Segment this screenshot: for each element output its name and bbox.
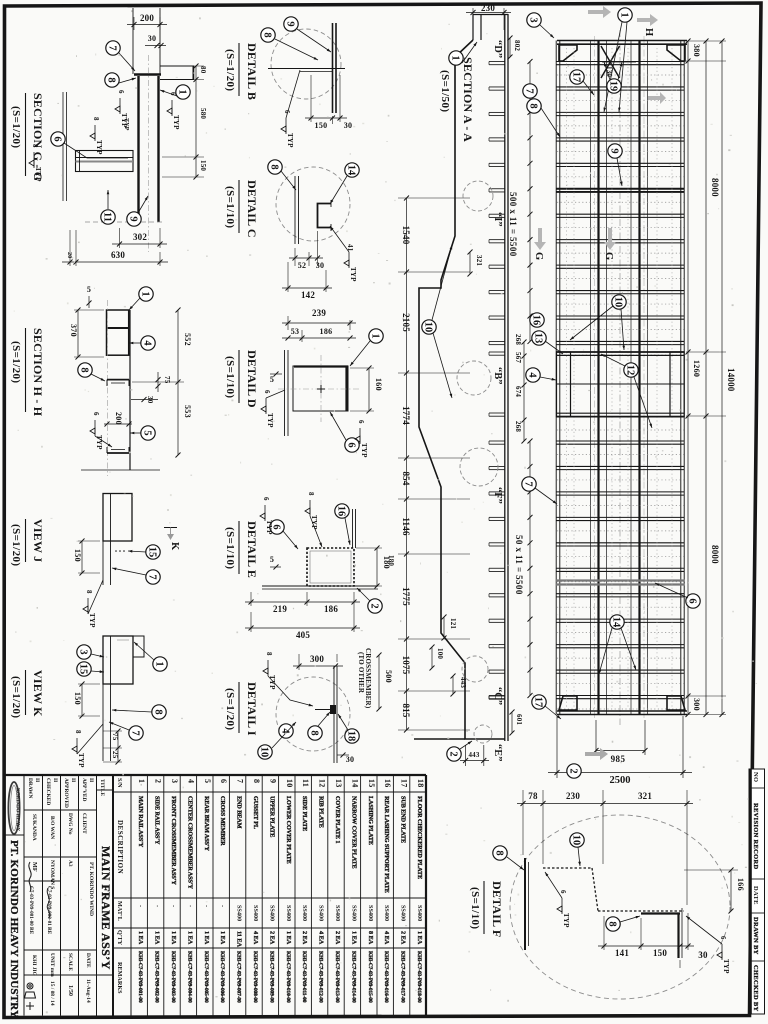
svg-text:KORINDO HEAVY: KORINDO HEAVY [15,788,20,831]
svg-text:18: 18 [416,779,425,788]
svg-text:UNIT mm: UNIT mm [49,953,55,977]
region circle &#8220;B&#8221; [457,361,491,395]
svg-text:100: 100 [436,648,444,659]
svg-text:52: 52 [298,261,307,270]
svg-text:4 EA: 4 EA [252,931,259,945]
svg-text:SS400: SS400 [400,905,407,921]
svg-text:1 EA: 1 EA [154,931,161,945]
svg-text:8: 8 [607,921,618,926]
svg-text:(S=1/20): (S=1/20) [10,341,22,383]
H-H channel stub upper [107,379,129,381]
svg-text:41: 41 [346,244,354,252]
detail F lower member (thick) [641,908,682,958]
svg-text:150: 150 [199,160,207,171]
svg-text:6: 6 [559,890,567,894]
svg-text:DATE: DATE [85,953,91,968]
svg-text:239: 239 [312,308,326,318]
svg-text:17: 17 [400,779,409,788]
svg-text:(S=1/10): (S=1/10) [224,356,236,398]
balloon 17 [570,70,584,84]
dim 985 (bottom) [594,720,648,764]
svg-text:230: 230 [566,791,580,801]
detail D dim 160 [350,366,383,414]
svg-text:II: II [88,778,94,782]
balloon 12 [624,363,638,377]
svg-text:11: 11 [102,212,113,222]
svg-text:150: 150 [73,692,82,705]
section H-H figure [81,300,160,476]
svg-text:443: 443 [459,677,467,688]
region circle &#8220;I&#8221; [463,181,493,211]
svg-text:(TO OTHER: (TO OTHER [357,652,365,694]
svg-text:1 EA: 1 EA [186,931,193,945]
detail D figure [278,350,360,436]
leader balloon 1 A-A [462,42,477,63]
weld symbol left of G-G [29,144,42,182]
svg-text:“B”: “B” [492,367,503,385]
leader from balloons 7/8 [541,108,560,137]
svg-text:121: 121 [449,618,457,629]
svg-text:SS400: SS400 [268,905,275,921]
svg-text:30: 30 [148,34,157,43]
svg-text:1 EA: 1 EA [219,931,226,945]
leader balloon 8 K [112,710,152,712]
svg-text:DWG No: DWG No [67,813,73,835]
svg-text:MAIN RAIL ASS'Y: MAIN RAIL ASS'Y [137,796,144,848]
balloon 8 detail B [261,28,275,42]
section cut H mid mark [648,92,666,104]
BOM row 18 [416,779,425,1003]
svg-text:TITLE: TITLE [99,779,105,796]
bolster right pad [670,352,684,417]
svg-text:150: 150 [653,948,667,958]
balloon 10 [612,295,626,309]
balloon 7 view J [146,570,160,584]
balloon 1 view K [153,657,167,671]
svg-text:10: 10 [571,835,582,846]
svg-text:180: 180 [382,556,391,569]
svg-text:KHI-C7-03-P09-001-00: KHI-C7-03-P09-001-00 [137,951,143,1003]
weld leader K [77,724,103,754]
leaders from balloon 14 [599,628,612,674]
balloon 11 G-G [101,210,115,224]
svg-text:19: 19 [608,81,619,92]
main rail 2 web [638,41,640,715]
svg-text:10: 10 [613,297,624,308]
balloon 8 view K [152,705,166,719]
svg-text:8000: 8000 [710,178,720,197]
svg-text:16: 16 [336,506,347,517]
svg-text:552: 552 [183,333,192,346]
svg-text:985: 985 [611,754,626,764]
svg-text:H: H [643,28,654,36]
svg-text:DATE: DATE [752,886,759,905]
svg-text:KHI-C7-03-P09-009-00: KHI-C7-03-P09-009-00 [268,951,274,1003]
svg-text:1: 1 [137,779,146,783]
balloon 14 detail C [345,163,359,177]
svg-text:1 EA: 1 EA [350,931,357,945]
svg-text:(S=1/20): (S=1/20) [10,106,22,148]
svg-text:8: 8 [265,652,273,656]
svg-text:8: 8 [528,103,539,108]
svg-text:REVISION RECORD: REVISION RECORD [752,803,759,869]
dim 601 [510,710,524,736]
svg-text:2105: 2105 [401,313,411,332]
G-G dim 630 + 20 [62,230,168,266]
svg-text:443: 443 [468,751,479,759]
svg-text:REMARKS: REMARKS [116,962,123,994]
BOM row 8 [252,779,261,1003]
svg-text:4: 4 [527,372,538,378]
svg-text:75: 75 [111,733,119,741]
BOM row 3 [170,779,179,1003]
detail C title [224,180,259,238]
svg-text:580: 580 [199,108,207,119]
svg-text:2 EA: 2 EA [268,931,275,945]
svg-text:KHI-C7-03-P09-010-00: KHI-C7-03-P09-010-00 [285,951,291,1003]
balloon 8 [527,99,541,113]
svg-text:268: 268 [514,334,522,345]
svg-text:6: 6 [357,420,365,424]
detail D box [293,366,348,411]
svg-text:REAR BEAM ASS'Y: REAR BEAM ASS'Y [203,796,210,852]
weld leader J [88,580,103,614]
bottom end crossmember [557,710,687,712]
signature squiggles [29,862,31,892]
deck edge rails [555,41,557,715]
section cut G right (gray) [604,228,616,250]
svg-text:DETAIL B: DETAIL B [245,43,259,100]
leaders from balloon 12 [601,354,625,366]
balloon 7 view K [129,726,143,740]
leader balloon 18 I [338,714,348,730]
svg-text:500: 500 [384,670,393,683]
detail B title [224,43,259,100]
G-G datum line [85,221,165,223]
svg-text:8: 8 [85,590,93,594]
G-G dim 302 [112,228,167,248]
BOM row 12 [318,779,327,1003]
svg-text:14: 14 [611,617,622,628]
balloon 6 detail E [270,520,284,534]
view K figure [103,636,144,761]
svg-text:12: 12 [318,779,327,788]
G-G cross channel [76,151,134,172]
balloon 4 H-H [141,336,155,350]
svg-text:16: 16 [383,779,392,788]
leader balloon 8 G-G [119,78,136,83]
crossmembers (double lines) [556,61,685,63]
svg-text:-: - [219,905,226,907]
leader balloon 8 B [275,39,318,60]
right dim line: 14000 overall [720,39,737,718]
balloon 3 [527,13,541,27]
G-G dim 200 [127,13,167,30]
svg-text:A3: A3 [67,860,73,867]
BOM row 9 [268,779,277,1003]
balloon 18 detail I [345,729,359,743]
svg-text:-: - [137,905,144,907]
svg-text:END BEAM: END BEAM [236,796,243,829]
leader balloon 10 I [272,722,296,748]
detail D dim 5 [270,372,282,385]
svg-text:CHECKED BY: CHECKED BY [752,965,759,1012]
main frame plan view [556,30,687,725]
detail F dims 141/150/30 [598,913,708,968]
G-G webs (thick verticals) [137,76,139,222]
svg-text:-: - [170,905,177,907]
svg-text:1: 1 [450,55,461,60]
svg-text:4: 4 [142,340,153,346]
svg-text:8: 8 [494,850,505,855]
svg-text:PT. KORINDO HEAVY INDUSTRY: PT. KORINDO HEAVY INDUSTRY [8,840,20,1018]
svg-text:NO: NO [752,772,759,782]
svg-text:674: 674 [514,386,522,397]
svg-text:50 x 11 = 5500: 50 x 11 = 5500 [514,535,524,595]
title block grid [6,775,114,1016]
weld symbol J [83,590,96,628]
leader balloon 9 B [297,29,331,52]
H-H dim 370 [69,308,104,360]
view J figure [103,494,132,586]
svg-text:TYP: TYP [286,133,294,148]
balloon 9 [608,144,622,158]
balloon 2 detail E [368,599,382,613]
svg-text:2: 2 [369,603,380,608]
svg-text:6: 6 [169,92,177,96]
detail F dims 78/230/321 [517,790,693,905]
svg-text:MAT'L: MAT'L [116,901,123,921]
detail F dashed step profile [543,868,684,911]
svg-text:2: 2 [568,768,579,773]
svg-text:321: 321 [638,791,652,801]
svg-text:500 x 11 = 5500: 500 x 11 = 5500 [508,192,518,257]
svg-text:8: 8 [92,117,100,121]
balloon 8 detail C [268,160,282,174]
svg-text:DETAIL D: DETAIL D [245,350,259,408]
svg-text:14000: 14000 [726,368,736,392]
bolster mid line [556,383,685,385]
svg-text:141: 141 [615,948,629,958]
G-G right dims 80/580/150 [162,64,207,180]
svg-text:CLIENT: CLIENT [81,813,87,834]
svg-text:KHI-C7-03-P09-008-00: KHI-C7-03-P09-008-00 [252,951,258,1003]
detail I dim 300 [293,654,343,670]
svg-text:2 EA: 2 EA [334,931,341,945]
svg-text:TYP: TYP [34,167,42,182]
balloon 6 detail D [345,438,359,452]
svg-text:CROSSMEMBER): CROSSMEMBER) [364,648,372,709]
svg-text:1774: 1774 [401,406,411,425]
view K title [10,670,45,718]
svg-text:TYP: TYP [265,520,273,535]
BOM row 2 [154,779,163,1003]
svg-text:302: 302 [133,232,147,242]
leader balloon 8 F [507,857,524,870]
detail C member [295,176,331,244]
region circle &#8220;F&#8221; [460,448,498,486]
balloon 2 on section A-A [447,747,461,761]
svg-text:8: 8 [309,730,320,735]
svg-text:RIB PLATE: RIB PLATE [318,796,325,828]
svg-text:6: 6 [346,442,357,447]
svg-text:B/O WAN: B/O WAN [49,816,55,839]
H-H ground line [81,469,160,471]
svg-text:TYP: TYP [88,613,96,628]
svg-text:DETAIL C: DETAIL C [245,180,259,238]
svg-text:5: 5 [142,430,153,435]
svg-text:16: 16 [531,315,542,326]
detail E dims 219/186 [245,592,360,632]
svg-text:TYP: TYP [95,140,103,155]
leader from balloon 17 [583,81,594,95]
region circle &#8220;E&#8221; [474,725,492,743]
leader balloon 6 G-G [64,143,128,158]
section A-A title [439,57,475,142]
svg-text:8000: 8000 [710,545,720,564]
svg-text:KHI-C7-03-P09-004-00: KHI-C7-03-P09-004-00 [186,951,192,1003]
svg-text:78: 78 [528,791,538,801]
svg-text:KHI-C7-03-P09-016-00: KHI-C7-03-P09-016-00 [383,951,389,1003]
left chain bolster segs 268/567/674/268 [514,334,527,444]
weld symbol I [263,652,276,690]
svg-text:“F”: “F” [492,487,503,504]
svg-text:8: 8 [307,492,315,496]
leader from balloon 3 [540,25,554,38]
svg-text:10: 10 [259,747,270,758]
svg-text:300: 300 [692,698,701,711]
svg-text:DESCRIPTION: DESCRIPTION [116,820,124,874]
balloon 6 [686,594,700,608]
svg-text:5: 5 [270,375,274,384]
svg-text:KHI-C7-03-P09-003-00: KHI-C7-03-P09-003-00 [170,951,176,1003]
weld leader F [686,916,722,944]
svg-text:TYP: TYP [123,118,130,131]
svg-text:7: 7 [130,730,141,735]
svg-text:1540: 1540 [401,226,411,245]
svg-text:405: 405 [296,630,310,640]
rail flange edge lines [590,41,592,715]
svg-text:601: 601 [515,714,523,725]
G-G right channel 80 [160,65,194,67]
svg-text:300: 300 [310,654,324,664]
svg-text:KHI-C7-03-P09-013-00: KHI-C7-03-P09-013-00 [334,951,340,1003]
balloon 9 detail B [284,17,298,31]
BOM row 13 [334,779,343,1003]
weld symbols D [261,390,274,428]
detail D dims 53/186 [282,327,356,342]
G-G flange junction (thick) [134,73,161,76]
weld symbols F [557,890,570,928]
leader from balloon 17 lower [545,706,561,719]
detail F circle [510,815,730,999]
svg-text:11-Aug-14: 11-Aug-14 [85,979,91,1003]
top end corner gussets [559,45,577,61]
svg-text:1: 1 [370,333,381,338]
svg-text:8: 8 [106,77,117,82]
balloon 1 [618,8,632,22]
svg-text:8: 8 [153,709,164,714]
svg-text:SIDE PLATE: SIDE PLATE [301,796,308,831]
BOM row 5 [203,779,212,1003]
svg-text:8: 8 [74,730,82,734]
svg-text:5: 5 [270,555,274,564]
detail C circle [276,167,350,241]
detail D dim 239 [282,308,356,330]
svg-text:MF: MF [31,862,38,872]
balloon 10 detail I [258,745,272,759]
svg-text:1075: 1075 [401,656,411,675]
svg-text:8 EA: 8 EA [367,931,374,945]
svg-text:2: 2 [154,779,163,783]
BOM row 6 [219,779,228,1003]
weld symbol B [281,110,294,148]
svg-text:CENTER CROSSMEMBER ASS'Y: CENTER CROSSMEMBER ASS'Y [186,796,193,889]
svg-text:7: 7 [524,88,535,93]
svg-text:6: 6 [263,390,271,394]
balloon 1 G-G [176,85,190,99]
svg-text:II: II [70,778,76,782]
detail E upper member [352,509,354,548]
top end crossmember [557,40,687,42]
svg-text:30: 30 [344,121,353,130]
balloon 4 detail I [279,724,293,738]
svg-text:15: 15 [147,547,158,558]
svg-text:(S=1/10): (S=1/10) [224,527,236,569]
svg-text:53: 53 [291,327,300,336]
svg-text:567: 567 [514,352,522,363]
svg-text:KHI-C7-03-P09-017-00: KHI-C7-03-P09-017-00 [400,951,406,1003]
weld symbol C [344,244,357,282]
view J title [10,519,45,566]
svg-text:KHI-C7-03-P09-015-00: KHI-C7-03-P09-015-00 [367,951,373,1003]
balloon 7 [523,84,537,98]
svg-text:MAIN FRAME ASS’Y: MAIN FRAME ASS’Y [99,846,113,970]
svg-text:(S=1/20): (S=1/20) [10,524,22,566]
svg-text:9: 9 [268,779,277,783]
detail I title [224,682,259,736]
balloon 8 detail F [493,846,507,860]
svg-text:LOWER COVER PLATE: LOWER COVER PLATE [285,796,292,864]
svg-text:802: 802 [513,40,521,51]
svg-text:SUB END PLATE: SUB END PLATE [400,796,407,843]
svg-text:2 EA: 2 EA [400,931,407,945]
svg-text:GUSSET PL: GUSSET PL [252,796,259,829]
leader balloon 6 E [283,531,298,549]
leader balloon 7 G-G [119,53,135,71]
balloon 14 [610,615,624,629]
svg-text:(S=1/20): (S=1/20) [10,676,22,718]
section A-A front face line [414,738,465,740]
svg-text:APP'VED: APP'VED [81,778,87,801]
detail E dim 405 [245,612,360,640]
svg-text:7: 7 [147,574,158,579]
G-G left column flange [62,92,64,201]
svg-text:K: K [169,542,180,551]
svg-text:KHI-C7-03-P09-007-00: KHI-C7-03-P09-007-00 [236,951,242,1003]
detail E deck line [262,585,378,587]
svg-text:6: 6 [219,779,228,783]
svg-text:1 EA: 1 EA [203,931,210,945]
leader balloon 8 H-H [91,374,105,381]
title cell [99,779,113,970]
leader balloon 2 A-A [460,741,472,749]
svg-text:7: 7 [236,779,245,783]
svg-text:FRONT CROSSMEMBER ASS'Y: FRONT CROSSMEMBER ASS'Y [170,796,177,885]
svg-text:10: 10 [285,779,294,788]
leader balloon 1 D [350,341,370,366]
svg-text:219: 219 [273,604,287,614]
